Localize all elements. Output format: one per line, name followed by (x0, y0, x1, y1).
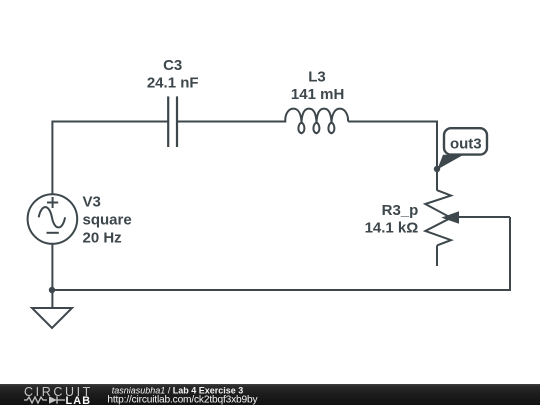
voltage source V3 (28, 194, 78, 244)
wire bottom horizontal (52, 217, 510, 290)
svg-text:V3: V3 (83, 194, 101, 211)
node flag out3 box (444, 128, 487, 154)
wire top-left horizontal (52, 122, 168, 195)
wire capacitor to inductor (177, 121, 284, 123)
svg-text:C3: C3 (163, 57, 182, 74)
wire wiper horizontal (457, 216, 510, 218)
svg-text:141 mH: 141 mH (291, 86, 344, 103)
wire V3 bottom to ground node (51, 244, 53, 309)
wire inductor to top-right corner down to node (348, 122, 437, 191)
wire resistor bottom terminal (436, 245, 438, 266)
inductor L3 (275, 109, 348, 134)
V3 plus sign (47, 197, 59, 233)
potentiometer wiper arrow (441, 211, 459, 224)
CircuitLab logo diode (49, 396, 57, 403)
svg-text:http://circuitlab.com/ck2tbqf3: http://circuitlab.com/ck2tbqf3xb9by (107, 394, 258, 405)
node dot out3 (434, 166, 440, 172)
ground symbol (32, 308, 72, 328)
CircuitLab logo resistor zigzag (24, 397, 47, 403)
V3 minus sign (47, 232, 59, 234)
svg-text:14.1 kΩ: 14.1 kΩ (365, 220, 419, 237)
potentiometer R3_p resistor zigzag (425, 190, 451, 245)
svg-text:L3: L3 (308, 68, 326, 85)
node dot ground junction (49, 287, 55, 293)
capacitor C3 (168, 96, 177, 147)
svg-text:LAB: LAB (66, 395, 92, 405)
svg-text:20 Hz: 20 Hz (83, 229, 122, 246)
svg-text:R3_p: R3_p (382, 202, 419, 219)
svg-text:24.1 nF: 24.1 nF (147, 74, 199, 91)
svg-text:out3: out3 (450, 135, 482, 152)
node flag out3 pointer (437, 155, 463, 170)
svg-text:square: square (83, 212, 132, 229)
